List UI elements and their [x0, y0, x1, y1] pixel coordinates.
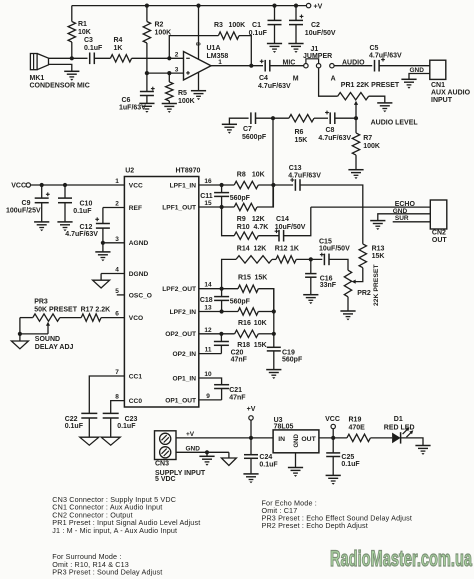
resistor R3	[218, 32, 239, 39]
wire pin 3 AGND	[103, 242, 125, 244]
ground C19	[266, 369, 281, 371]
wire pin 8 CC0 to C23	[111, 401, 125, 414]
regulator U3 78L05	[273, 430, 319, 453]
svg-text:R19: R19	[349, 417, 362, 424]
ground CN3	[199, 455, 214, 457]
svg-text:4.7uF/63V: 4.7uF/63V	[258, 83, 291, 90]
svg-text:R3: R3	[214, 22, 223, 29]
svg-text:8: 8	[194, 42, 201, 46]
capacitor C6	[146, 73, 148, 92]
svg-text:C19: C19	[282, 350, 295, 357]
wire pin3 net	[147, 72, 184, 74]
wire ECHO to CN2	[311, 206, 431, 208]
svg-text:10uF/50V: 10uF/50V	[305, 30, 336, 37]
svg-text:JUMPER: JUMPER	[303, 53, 332, 60]
svg-text:2: 2	[175, 52, 179, 59]
wire CN3 +V to U3 IN	[176, 437, 273, 439]
svg-text:12K: 12K	[254, 246, 267, 253]
svg-text:CONDENSOR MIC: CONDENSOR MIC	[30, 83, 90, 90]
svg-text:LPF1_IN: LPF1_IN	[170, 182, 197, 189]
node R8/C13/audio junction	[271, 183, 275, 187]
svg-text:4.7K: 4.7K	[254, 224, 269, 231]
svg-text:PR1 22K PRESET: PR1 22K PRESET	[341, 82, 400, 89]
svg-text:15K: 15K	[372, 253, 385, 260]
svg-text:R4: R4	[114, 37, 123, 44]
ground C24	[243, 473, 258, 475]
resistor R14	[236, 256, 272, 263]
wire pin 11	[199, 353, 222, 355]
capacitor C19	[267, 346, 281, 348]
svg-text:7: 7	[115, 369, 119, 376]
wire R17 to pin 6	[101, 317, 124, 319]
svg-text:4.7uF/63V: 4.7uF/63V	[65, 231, 98, 238]
svg-text:100uF/25V: 100uF/25V	[6, 208, 41, 215]
wire pin 12	[199, 333, 235, 335]
svg-text:C1: C1	[252, 22, 261, 29]
wire audio node down to HT8970 input	[272, 118, 274, 207]
LED D1	[392, 433, 401, 444]
svg-text:R18: R18	[237, 342, 250, 349]
wire pin 2 REF	[103, 207, 125, 209]
capacitor C23	[103, 412, 119, 414]
wire PR3 left lead down	[19, 318, 21, 334]
svg-text:C9: C9	[22, 200, 31, 207]
wire C15 to PR2	[329, 259, 348, 270]
wire op-amp pin4 to ground	[198, 72, 200, 90]
svg-text:R15: R15	[238, 275, 251, 282]
svg-text:15K: 15K	[255, 275, 268, 282]
wire PR3 to R17	[60, 317, 81, 319]
svg-text:REF: REF	[129, 205, 142, 212]
svg-text:R14: R14	[237, 246, 250, 253]
wire audio level net left to ground	[229, 118, 248, 124]
svg-text:C21: C21	[229, 387, 242, 394]
resistor R2	[146, 6, 148, 22]
ground AGND	[102, 243, 104, 252]
wire pin 5 stub	[117, 294, 125, 296]
wire CN2 SUR stub	[393, 221, 431, 223]
node PR1 wiper/R7 junction	[354, 116, 358, 120]
svg-text:OUT: OUT	[432, 237, 448, 244]
svg-text:AUDIO: AUDIO	[342, 60, 365, 67]
svg-text:HT8970: HT8970	[176, 167, 201, 174]
svg-text:GND: GND	[393, 208, 408, 215]
svg-text:100K: 100K	[229, 22, 246, 29]
svg-text:C6: C6	[122, 97, 131, 104]
svg-text:15: 15	[204, 200, 212, 207]
connector CN1	[430, 60, 446, 79]
wire C13 to R13 drop	[300, 185, 363, 244]
capacitor C10	[64, 185, 66, 198]
svg-text:OSC_O: OSC_O	[129, 292, 152, 299]
svg-text:SUR: SUR	[395, 215, 409, 222]
capacitor C2	[295, 6, 297, 21]
wire R12 to C15	[296, 258, 322, 260]
svg-text:IN: IN	[278, 436, 285, 443]
wire C8 to R7 node	[335, 117, 356, 119]
ground C16	[303, 294, 318, 296]
wire R13 to PR2 wiper	[355, 268, 363, 282]
wire feedback loop R3	[169, 36, 218, 59]
svg-text:C11: C11	[200, 193, 213, 200]
capacitor C24	[250, 438, 252, 455]
ground CN2	[370, 220, 385, 222]
svg-text:C2: C2	[311, 22, 320, 29]
svg-text:OP2_OUT: OP2_OUT	[165, 331, 196, 338]
svg-text:16: 16	[204, 178, 212, 185]
svg-text:+V: +V	[247, 406, 256, 413]
wire R3 to output node	[239, 36, 251, 66]
svg-text:C4: C4	[259, 75, 268, 82]
node audio input junction	[271, 116, 275, 120]
wire pin 15	[199, 206, 234, 208]
svg-text:4.7uF/63V: 4.7uF/63V	[369, 53, 402, 60]
svg-text:OP1_OUT: OP1_OUT	[165, 397, 196, 404]
wire VCC to pin 1	[31, 184, 125, 186]
IC U2 HT8970 body	[124, 177, 198, 408]
svg-text:RED LED: RED LED	[384, 424, 415, 431]
wire pin 16	[199, 184, 234, 186]
node PR3 ground junction	[18, 332, 22, 336]
wire R8 to C13 node	[258, 184, 293, 186]
svg-text:OP2_IN: OP2_IN	[173, 351, 197, 358]
svg-text:C20: C20	[231, 350, 244, 357]
node R2/C6 junction	[145, 71, 149, 75]
svg-text:R9: R9	[237, 216, 246, 223]
wire pin 14	[199, 288, 238, 290]
svg-text:CN2: CN2	[432, 230, 446, 237]
connector CN2	[430, 200, 447, 229]
node pin13/R15 junction	[272, 309, 276, 313]
svg-text:+V: +V	[314, 3, 323, 10]
node output junction	[249, 64, 253, 68]
svg-text:15K: 15K	[295, 137, 308, 144]
node feedback/pin2 junction	[167, 56, 171, 60]
capacitor C18	[221, 289, 223, 297]
svg-text:VCC: VCC	[129, 182, 143, 189]
resistor R16	[238, 308, 258, 315]
svg-text:R1: R1	[78, 21, 87, 28]
preset PR3	[33, 314, 60, 321]
resistor R15	[238, 285, 258, 292]
svg-text:VCC: VCC	[11, 183, 26, 190]
wire mic lower lead to ground	[49, 64, 72, 71]
preset PR1	[319, 68, 338, 96]
svg-text:10uF/50V: 10uF/50V	[275, 224, 306, 231]
node pin12/C19 junction	[272, 332, 276, 336]
wire C4 to jumper M	[270, 65, 304, 67]
svg-text:33nF: 33nF	[320, 282, 337, 289]
wire pin 9	[199, 399, 222, 401]
ground PR2	[340, 310, 355, 312]
svg-text:C25: C25	[341, 454, 354, 461]
ground C22 triangle	[80, 437, 99, 445]
svg-text:12K: 12K	[252, 216, 265, 223]
ground C25	[326, 474, 341, 476]
capacitor C13	[294, 179, 296, 191]
resistor R13	[359, 244, 366, 268]
svg-text:GND: GND	[186, 445, 201, 452]
wire pin15 down to R10	[222, 207, 235, 236]
node pin13 junction	[220, 309, 224, 313]
capacitor C11	[221, 185, 223, 193]
resistor R10	[234, 232, 258, 239]
capacitor C8	[329, 112, 331, 124]
ground U3	[288, 467, 303, 469]
svg-text:4: 4	[115, 267, 119, 274]
svg-text:560pF: 560pF	[282, 357, 303, 364]
ground C6	[139, 102, 154, 104]
svg-text:C8: C8	[326, 127, 335, 134]
ground mic	[64, 70, 79, 72]
svg-text:R6: R6	[295, 129, 304, 136]
svg-text:RadioMaster.com.ua: RadioMaster.com.ua	[330, 546, 473, 571]
wire R9 up to C13 node	[257, 185, 273, 207]
resistor R9	[234, 203, 257, 210]
ground C7	[222, 123, 237, 125]
connector CN3 terminal block	[155, 431, 177, 460]
svg-text:50K PRESET: 50K PRESET	[34, 307, 78, 314]
capacitor C5	[374, 60, 376, 72]
svg-text:560pF: 560pF	[230, 195, 251, 202]
capacitor C12	[102, 208, 104, 224]
svg-text:C5: C5	[370, 45, 379, 52]
svg-text:0.1uF: 0.1uF	[84, 45, 103, 52]
capacitor C22	[81, 412, 97, 414]
svg-text:3: 3	[175, 66, 179, 73]
node C12/AGND junction	[101, 241, 105, 245]
svg-text:SOUND: SOUND	[35, 336, 60, 343]
ground CN1	[401, 78, 416, 80]
svg-text:DGND: DGND	[129, 271, 149, 278]
svg-text:C23: C23	[125, 416, 138, 423]
svg-text:78L05: 78L05	[274, 424, 294, 431]
capacitor C4	[264, 60, 266, 72]
VCC terminal bottom	[332, 429, 334, 438]
wire R10 to C14	[258, 235, 279, 237]
condenser mic MK1	[30, 54, 37, 70]
capacitor C9	[41, 185, 43, 198]
svg-text:C18: C18	[200, 297, 213, 304]
svg-text:CC1: CC1	[129, 373, 143, 380]
ground C1	[267, 43, 282, 45]
capacitor C3	[89, 53, 91, 65]
node top rail junctions	[145, 4, 149, 8]
svg-text:1: 1	[115, 178, 119, 185]
svg-text:+V: +V	[186, 431, 195, 438]
svg-text:6: 6	[115, 311, 119, 318]
resistor R17	[81, 314, 101, 321]
svg-text:GND: GND	[410, 67, 425, 74]
svg-text:3: 3	[115, 236, 119, 243]
wire C5 to CN1	[379, 65, 430, 67]
wire R18 to C19 drop	[258, 333, 274, 335]
wire pin 7 CC1 to C22	[89, 376, 124, 413]
svg-text:U1A: U1A	[207, 45, 221, 52]
wire pin 4 DGND	[101, 273, 124, 275]
node pin14 junction	[220, 287, 224, 291]
svg-text:470E: 470E	[349, 424, 366, 431]
wire C7 to R6	[256, 117, 289, 119]
resistor R4	[110, 55, 131, 62]
svg-text:R16: R16	[238, 320, 251, 327]
svg-text:R5: R5	[178, 90, 187, 97]
svg-text:INPUT: INPUT	[431, 97, 453, 104]
svg-text:LPF2_OUT: LPF2_OUT	[162, 286, 196, 293]
ground PR3 triangle	[11, 341, 28, 349]
wire U3 OUT to VCC node	[319, 437, 347, 439]
svg-text:U2: U2	[125, 167, 134, 174]
svg-text:R8: R8	[237, 172, 246, 179]
wire R19 to D1	[370, 437, 392, 439]
preset PR2	[344, 270, 351, 297]
wire mic output to node	[49, 57, 88, 59]
node C9 junction	[40, 183, 44, 187]
svg-text:47nF: 47nF	[231, 357, 248, 364]
svg-text:1K: 1K	[290, 246, 299, 253]
svg-text:A: A	[331, 76, 336, 83]
svg-text:47nF: 47nF	[229, 394, 246, 401]
+V terminal top	[306, 3, 310, 7]
svg-text:AUX AUDIO: AUX AUDIO	[431, 90, 471, 97]
svg-text:LPF1_OUT: LPF1_OUT	[162, 204, 196, 211]
svg-text:0.1uF: 0.1uF	[341, 461, 360, 468]
node pin12 junction	[219, 332, 223, 336]
svg-text:11: 11	[205, 347, 212, 354]
ground PR1	[377, 102, 392, 104]
svg-text:0.1uF: 0.1uF	[249, 30, 268, 37]
ground C2	[288, 43, 303, 45]
svg-text:5: 5	[115, 288, 119, 295]
wire pin14 up to R14	[222, 259, 236, 288]
svg-text:10K: 10K	[78, 29, 91, 36]
svg-text:AUDIO LEVEL: AUDIO LEVEL	[371, 120, 419, 127]
VCC terminal	[26, 183, 30, 187]
svg-text:0.1uF: 0.1uF	[73, 208, 92, 215]
svg-text:PR3: PR3	[34, 299, 48, 306]
node C24 junction	[249, 436, 253, 440]
jumper J1	[304, 63, 308, 67]
svg-text:C15: C15	[319, 238, 332, 245]
capacitor C16	[310, 259, 312, 273]
svg-text:R7: R7	[363, 135, 372, 142]
wire pin 13	[199, 311, 238, 313]
svg-text:CC0: CC0	[129, 398, 143, 405]
svg-text:CN1: CN1	[431, 82, 445, 89]
resistor R6	[289, 115, 314, 122]
svg-text:5 VDC: 5 VDC	[155, 476, 176, 483]
svg-text:CN3: CN3	[155, 461, 169, 468]
wire PR3 wiper	[47, 325, 49, 334]
capacitor C1	[274, 6, 276, 21]
capacitor C25	[332, 438, 334, 453]
svg-text:1uF/63V: 1uF/63V	[119, 105, 146, 112]
resistor R19	[347, 434, 371, 441]
svg-text:J1 : M - Mic input, A - Aux Au: J1 : M - Mic input, A - Aux Audio Input	[52, 526, 177, 535]
svg-text:AGND: AGND	[129, 240, 149, 247]
svg-text:0.1uF: 0.1uF	[259, 462, 278, 469]
wire C14 to ECHO riser	[284, 207, 311, 236]
svg-text:C13: C13	[289, 165, 302, 172]
svg-text:8: 8	[115, 394, 119, 401]
svg-text:C22: C22	[65, 416, 78, 423]
svg-text:C12: C12	[80, 224, 93, 231]
svg-text:100K: 100K	[363, 143, 380, 150]
svg-text:10: 10	[204, 371, 212, 378]
svg-text:J1: J1	[311, 46, 319, 53]
svg-text:0.1uF: 0.1uF	[65, 423, 84, 430]
svg-text:PR2 Preset : Echo Depth Adjust: PR2 Preset : Echo Depth Adjust	[262, 521, 368, 530]
wire PR1 wiper	[355, 104, 357, 118]
ground op-amp pin4	[191, 90, 206, 92]
svg-text:MK1: MK1	[30, 75, 45, 82]
wire R4 to op-amp pin 2	[132, 57, 184, 59]
node pin15 junction	[220, 205, 224, 209]
wire op-amp pin8 to +V rail	[198, 6, 200, 60]
wire top +V rail	[72, 5, 306, 7]
ground R5	[162, 103, 177, 105]
svg-text:13: 13	[204, 305, 212, 312]
capacitor C15	[323, 254, 325, 266]
svg-text:12: 12	[204, 327, 212, 334]
resistor R8	[234, 181, 258, 188]
wire CN1 ground	[409, 74, 430, 80]
svg-text:2: 2	[115, 201, 119, 208]
svg-text:10uF/50V: 10uF/50V	[319, 246, 350, 253]
svg-text:22K PRESET: 22K PRESET	[373, 264, 380, 306]
node CN3 gnd junction	[205, 450, 209, 454]
svg-text:PR3 Preset : Sound Delay Adjus: PR3 Preset : Sound Delay Adjust	[52, 568, 162, 577]
svg-text:M: M	[293, 76, 299, 83]
svg-text:C14: C14	[276, 216, 289, 223]
capacitor C21	[214, 384, 229, 386]
svg-text:5600pF: 5600pF	[242, 134, 267, 141]
wire R16 to C19 drop	[258, 311, 274, 313]
resistor R1	[71, 6, 73, 22]
svg-text:VCO: VCO	[129, 315, 143, 322]
svg-text:R13: R13	[372, 246, 385, 253]
node VCC junction	[331, 436, 335, 440]
ground C10	[57, 221, 72, 223]
wire jumper A to C5	[334, 65, 372, 67]
node C10 junction	[63, 183, 67, 187]
svg-text:MIC: MIC	[283, 60, 296, 67]
wire U3 GND pin	[295, 453, 297, 468]
svg-text:C24: C24	[259, 454, 272, 461]
node mic/R1/C3 junction	[70, 56, 74, 60]
svg-text:14: 14	[204, 282, 212, 289]
svg-text:4.7uF/63V: 4.7uF/63V	[318, 135, 351, 142]
wire op-amp output	[211, 65, 263, 67]
ground C23 triangle	[101, 437, 120, 445]
resistor R5	[168, 73, 170, 82]
node C16 junction	[309, 257, 313, 261]
svg-text:0.1uF: 0.1uF	[117, 423, 136, 430]
svg-text:PR2: PR2	[357, 290, 371, 297]
svg-text:R12: R12	[275, 246, 288, 253]
wire pin 10 to C21	[199, 378, 222, 385]
resistor R18	[235, 330, 259, 337]
svg-text:LPF2_IN: LPF2_IN	[170, 309, 197, 316]
LED D1 arrows	[403, 429, 409, 435]
resistor R7	[355, 118, 357, 133]
svg-text:9: 9	[206, 393, 210, 400]
svg-text:VCC: VCC	[325, 416, 340, 423]
svg-text:1K: 1K	[114, 45, 123, 52]
svg-text:R17 2.2K: R17 2.2K	[81, 307, 111, 314]
ground D1	[415, 445, 430, 447]
wire CN3 GND	[176, 451, 229, 453]
